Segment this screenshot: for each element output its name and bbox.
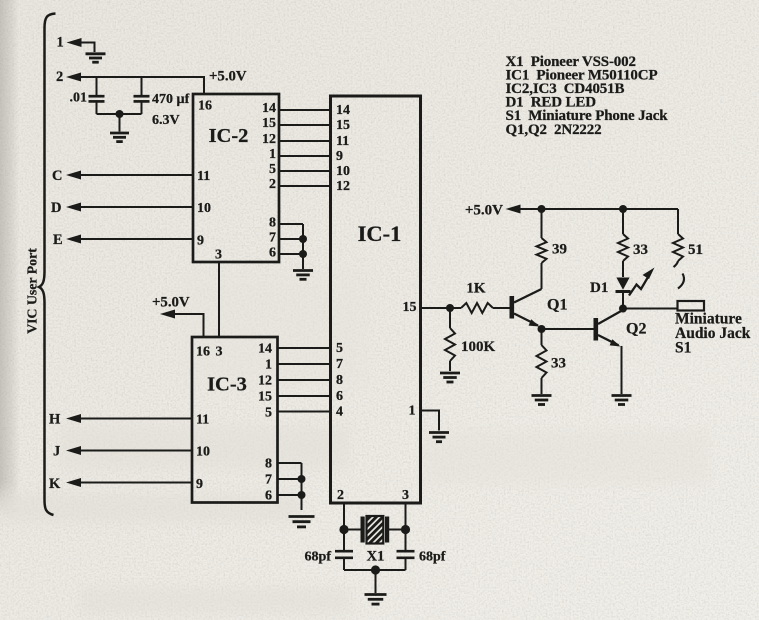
svg-text:8: 8 <box>269 216 276 231</box>
node crystal right <box>401 525 410 534</box>
crystal X1 <box>344 529 361 531</box>
svg-text:15: 15 <box>262 116 276 131</box>
svg-text:470 µf: 470 µf <box>152 92 190 107</box>
svg-text:1: 1 <box>265 358 272 373</box>
svg-text:6: 6 <box>336 389 343 404</box>
wire capacitor bottoms <box>97 113 142 115</box>
node IC-2 pin 7 junction <box>299 235 307 243</box>
svg-text:10: 10 <box>197 201 211 216</box>
svg-text:Q1,Q2 2N2222: Q1,Q2 2N2222 <box>506 122 602 138</box>
node Q1 emitter junction <box>538 325 546 333</box>
svg-text:K: K <box>49 476 61 492</box>
svg-text:VIC User Port: VIC User Port <box>25 248 40 334</box>
wires IC-2 pins 14 15 12 1 5 2 to IC-1 <box>279 110 331 186</box>
svg-text:33: 33 <box>551 356 566 372</box>
IC U1 (IC-1 Pioneer M50110CP) body <box>331 96 421 503</box>
ground (IC-1 pin 1) <box>429 433 449 442</box>
miniature audio jack S1 <box>678 301 705 311</box>
svg-text:D1: D1 <box>590 280 608 296</box>
svg-text:2: 2 <box>337 488 344 503</box>
transistor Q2 2N2222 <box>594 318 599 341</box>
wire crystal bottom <box>344 569 406 571</box>
svg-text:5: 5 <box>265 406 272 421</box>
svg-text:.01: .01 <box>70 91 88 106</box>
svg-text:15: 15 <box>336 118 350 133</box>
svg-text:H: H <box>49 412 61 428</box>
svg-text:+5.0V: +5.0V <box>465 203 503 219</box>
port pin K arrow <box>66 478 81 487</box>
svg-text:1K: 1K <box>466 281 486 297</box>
wire pin 2 to IC-2 pin 16 (+5V) <box>81 77 204 94</box>
svg-text:12: 12 <box>336 179 350 194</box>
ground (pin 1) <box>86 54 106 62</box>
wire +5V rail <box>521 208 679 210</box>
+5V arrow middle <box>160 310 175 319</box>
resistor 33 (LED) <box>622 209 624 234</box>
node IC-3 pin 6 junction <box>298 491 306 499</box>
svg-text:6.3V: 6.3V <box>152 113 180 128</box>
wire pin 1 to ground <box>82 43 95 53</box>
LED light arrow <box>629 275 650 296</box>
svg-text:1: 1 <box>269 147 276 162</box>
svg-text:7: 7 <box>265 473 272 488</box>
IC U2 (IC-2 CD4051B) body <box>193 94 279 262</box>
resistor 51 <box>677 209 679 234</box>
port pin D arrow <box>66 203 81 212</box>
wire D to IC-2 pin 10 <box>81 206 193 208</box>
wire IC-2 pin 3 to IC-3 pin 3 <box>218 262 220 337</box>
port pin C arrow <box>66 171 81 180</box>
svg-text:16: 16 <box>196 345 210 360</box>
svg-text:15: 15 <box>403 300 417 315</box>
svg-text:IC-1: IC-1 <box>358 221 402 246</box>
parts list text <box>506 54 669 138</box>
VIC user port bracket <box>39 14 56 516</box>
node crystal left <box>339 525 348 534</box>
svg-text:1: 1 <box>57 35 64 51</box>
svg-text:14: 14 <box>258 342 272 357</box>
svg-text:X1: X1 <box>367 549 385 565</box>
resistor 33 (Q1 emitter) <box>541 329 543 345</box>
ground (100K) <box>440 373 460 382</box>
wire IC-1 pin 1 to ground <box>421 411 440 431</box>
svg-text:68pf: 68pf <box>419 550 446 565</box>
svg-text:3: 3 <box>402 488 409 503</box>
jack switch contact hook <box>674 261 679 267</box>
svg-text:9: 9 <box>196 477 203 492</box>
port pin H arrow <box>66 414 81 423</box>
svg-text:+5.0V: +5.0V <box>152 295 190 311</box>
svg-text:IC-2: IC-2 <box>209 125 249 147</box>
node rail R33 <box>619 205 627 213</box>
ground (IC-3 pins 8 7 6) <box>289 517 315 527</box>
svg-text:Q1: Q1 <box>547 297 567 314</box>
node IC-2 pin 6 junction <box>299 250 307 258</box>
svg-text:6: 6 <box>265 489 272 504</box>
svg-text:E: E <box>53 232 63 248</box>
svg-text:12: 12 <box>262 132 276 147</box>
svg-text:39: 39 <box>552 242 567 258</box>
capacitor 68pf right <box>397 550 415 553</box>
ground (capacitors) <box>110 133 129 142</box>
svg-text:14: 14 <box>336 103 350 118</box>
svg-text:3: 3 <box>215 248 222 263</box>
ground (IC-2 pins 8 7 6) <box>293 271 313 280</box>
wire Q2 collector to jack <box>623 308 678 310</box>
svg-text:D: D <box>51 200 61 216</box>
svg-text:8: 8 <box>336 373 343 388</box>
port pin 2 arrow <box>66 73 81 82</box>
svg-text:Q2: Q2 <box>626 321 646 338</box>
IC U3 (IC-3 CD4051B) body <box>192 337 278 503</box>
node crystal bottom <box>371 565 380 574</box>
transistor Q1 2N2222 <box>510 296 515 319</box>
resistor 100K <box>449 308 451 328</box>
resistor 1K <box>461 303 493 313</box>
svg-text:5: 5 <box>269 162 276 177</box>
wire +5V to IC-3 pin 16 <box>175 314 204 337</box>
svg-text:11: 11 <box>196 413 209 428</box>
node capacitor junction <box>116 110 124 118</box>
LED D1 <box>616 278 629 290</box>
+5V rail arrow <box>506 205 521 214</box>
svg-text:10: 10 <box>336 164 350 179</box>
ground (crystal) <box>365 595 387 605</box>
svg-text:7: 7 <box>336 357 343 372</box>
svg-text:2: 2 <box>56 69 63 85</box>
capacitor C 470uf <box>141 77 143 96</box>
svg-text:1: 1 <box>409 404 416 419</box>
svg-text:4: 4 <box>336 405 343 420</box>
svg-text:C: C <box>52 168 62 184</box>
svg-text:7: 7 <box>269 231 276 246</box>
wire H to IC-3 pin 11 <box>81 418 192 420</box>
wire C to IC-2 pin 11 <box>81 174 193 176</box>
svg-text:10: 10 <box>196 445 210 460</box>
svg-text:S1: S1 <box>675 340 691 357</box>
label VIC User Port <box>25 248 40 334</box>
svg-text:3: 3 <box>216 345 223 360</box>
label Miniature Audio Jack S1 <box>675 311 751 357</box>
wire IC-1 pin 15 to 1K <box>421 307 462 309</box>
ground (Q2 emitter) <box>612 396 632 405</box>
svg-text:16: 16 <box>198 99 212 114</box>
svg-text:11: 11 <box>197 169 210 184</box>
svg-text:2: 2 <box>269 177 276 192</box>
wire 1K to Q1 base <box>493 307 510 309</box>
port pin J arrow <box>66 446 81 455</box>
wires IC-3 pins 8 7 6 to ground <box>278 462 302 464</box>
wire J to IC-3 pin 10 <box>81 450 192 452</box>
svg-text:33: 33 <box>633 242 648 258</box>
wires IC-2 pins 8 7 6 to ground <box>279 223 303 225</box>
svg-text:12: 12 <box>258 374 272 389</box>
ground (33 Q1) <box>532 396 552 405</box>
svg-text:68pf: 68pf <box>305 550 332 565</box>
svg-text:8: 8 <box>265 457 272 472</box>
node pin15 junction <box>446 304 454 312</box>
wire E to IC-2 pin 9 <box>81 238 193 240</box>
node Q2 collector junction <box>619 305 627 313</box>
resistor 39 <box>541 209 543 238</box>
wire K to IC-3 pin 9 <box>81 482 192 484</box>
wires IC-3 pins 14 1 12 15 5 to IC-1 <box>278 348 332 412</box>
node rail R39 <box>538 205 546 213</box>
svg-text:IC-3: IC-3 <box>207 374 247 396</box>
capacitor 68pf left <box>335 550 353 553</box>
svg-text:5: 5 <box>336 341 343 356</box>
svg-text:14: 14 <box>262 101 276 116</box>
capacitor C .01uf <box>96 77 98 96</box>
port pin 1 arrow <box>67 38 82 47</box>
svg-text:15: 15 <box>258 390 272 405</box>
wire IC-1 pin 2 down <box>343 503 345 551</box>
wire IC-1 pin 3 down <box>405 503 407 551</box>
svg-text:100K: 100K <box>461 339 496 355</box>
wire Q1 emitter to Q2 base <box>542 328 594 330</box>
svg-text:9: 9 <box>197 234 204 249</box>
svg-text:J: J <box>53 444 60 460</box>
port pin E arrow <box>66 235 81 244</box>
svg-text:9: 9 <box>336 149 343 164</box>
svg-text:11: 11 <box>336 134 349 149</box>
node IC-3 pin 7 junction <box>298 475 306 483</box>
svg-text:6: 6 <box>269 246 276 261</box>
svg-text:51: 51 <box>688 242 703 258</box>
svg-text:+5.0V: +5.0V <box>209 69 247 85</box>
